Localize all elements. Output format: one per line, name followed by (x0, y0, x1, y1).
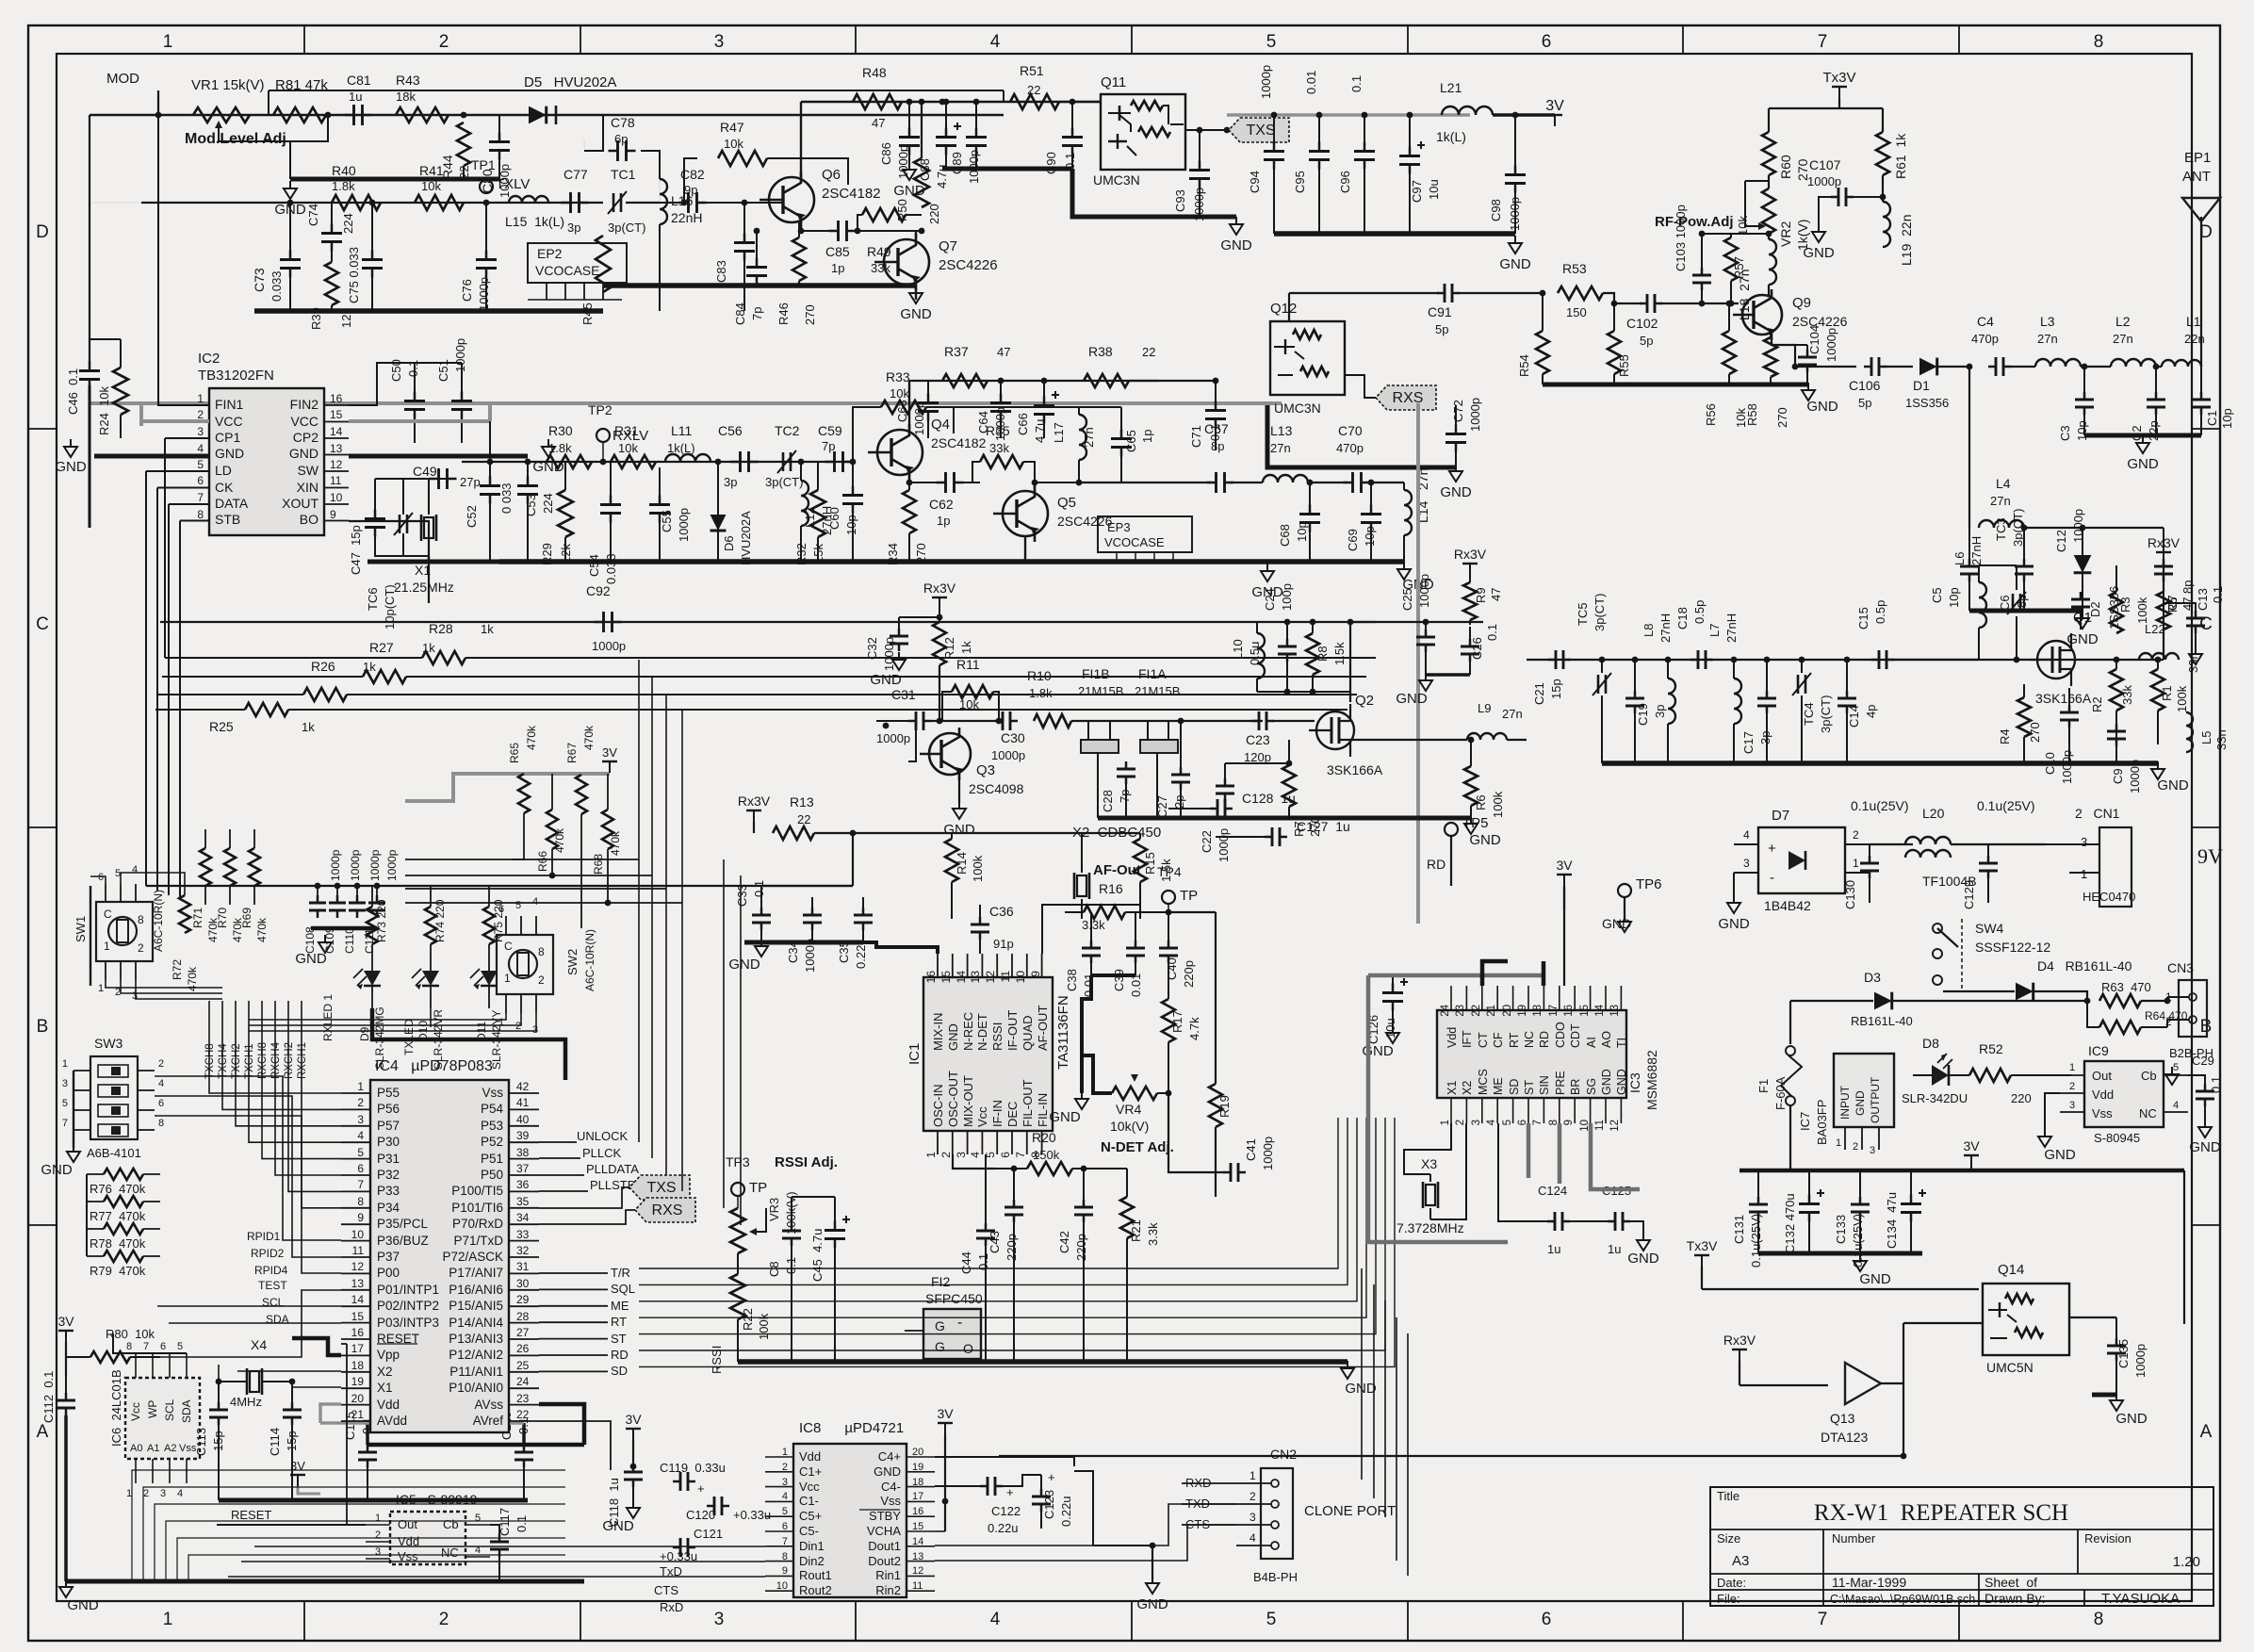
test point TP6 GND (1618, 884, 1631, 897)
svg-text:RPID2: RPID2 (251, 1247, 285, 1260)
svg-text:0.1: 0.1 (752, 880, 766, 897)
svg-text:C30: C30 (1001, 730, 1025, 745)
gnd below C107 (1818, 224, 1820, 232)
svg-text:R4: R4 (1998, 728, 2012, 744)
svg-text:C74: C74 (306, 204, 320, 226)
svg-text:Vdd: Vdd (799, 1449, 821, 1464)
IC8 pin 7 Din1 (765, 1546, 793, 1547)
inductor L21 1k(L) (1442, 106, 1493, 115)
IC3 pin 19 NC (1527, 986, 1529, 1010)
power 3V above rail (1970, 1155, 1972, 1167)
switch SW4 SSSF122-12 (1933, 924, 1942, 933)
thick gnd under C108-C111 (311, 926, 377, 931)
svg-text:3p(CT): 3p(CT) (1592, 594, 1607, 631)
svg-text:C4: C4 (1977, 314, 1994, 329)
svg-text:SCL: SCL (163, 1398, 176, 1421)
svg-text:1000p: 1000p (1824, 328, 1838, 362)
svg-text:R43: R43 (396, 73, 420, 88)
FI2 pins (934, 1359, 936, 1362)
IC1 pin 8 FIL-IN (1041, 1131, 1043, 1154)
capacitor C65 1p (1111, 437, 1132, 440)
svg-text:X1: X1 (415, 563, 431, 578)
svg-text:R69: R69 (240, 908, 253, 928)
svg-text:C112 0.1: C112 0.1 (41, 1371, 56, 1423)
svg-text:11: 11 (330, 474, 342, 487)
svg-text:AVdd: AVdd (377, 1414, 407, 1428)
svg-text:C95: C95 (1293, 171, 1307, 193)
resistor R24 10k (113, 368, 128, 415)
transistor Q3 2SC4098 (929, 733, 971, 775)
IC2 pin 14 CP2 (324, 437, 349, 439)
gnd SW3 (73, 1071, 74, 1148)
svg-text:R77 470k: R77 470k (90, 1209, 146, 1223)
svg-text:FIL-IN: FIL-IN (1036, 1093, 1050, 1127)
thick GND bar TX amp (603, 283, 916, 288)
svg-text:27nH: 27nH (1969, 536, 1984, 565)
svg-text:3p: 3p (567, 221, 580, 235)
svg-text:P00: P00 (377, 1266, 400, 1280)
svg-text:R28: R28 (429, 621, 453, 636)
trimmer TC5 3p(CT) (1597, 675, 1600, 694)
svg-text:R31: R31 (614, 423, 639, 438)
capacitor C32 1000p (890, 635, 908, 638)
svg-text:R51: R51 (1020, 63, 1044, 78)
svg-text:3p(CT): 3p(CT) (2011, 509, 2025, 547)
svg-text:22p: 22p (2147, 420, 2161, 441)
svg-text:100k: 100k (1491, 791, 1505, 818)
capacitor C42 220p (1074, 1206, 1093, 1209)
svg-text:6: 6 (158, 1098, 164, 1109)
svg-text:SFPC450: SFPC450 (925, 1291, 983, 1306)
svg-text:Size: Size (1717, 1531, 1740, 1546)
svg-text:C134 47u: C134 47u (1885, 1192, 1899, 1249)
diode D6 HVU202A varactor (710, 515, 727, 531)
svg-text:R26: R26 (311, 659, 335, 674)
resistor R63 470 (2099, 994, 2141, 1007)
svg-text:TC3: TC3 (1994, 517, 2008, 541)
svg-text:Vss: Vss (2092, 1106, 2113, 1120)
svg-text:16: 16 (924, 971, 938, 984)
svg-text:TP4: TP4 (1157, 864, 1182, 879)
svg-text:4: 4 (1743, 828, 1750, 842)
svg-text:CN2: CN2 (1270, 1447, 1297, 1462)
svg-text:RT: RT (611, 1315, 627, 1329)
IC4 pin 16 RESET (341, 1338, 370, 1340)
wire R13 to R14 and C33 (852, 833, 854, 886)
svg-text:A1: A1 (147, 1443, 159, 1454)
dual gate FET Q2 3SK166A (1316, 712, 1354, 749)
svg-text:7: 7 (143, 1341, 149, 1352)
svg-text:GND: GND (289, 446, 318, 461)
svg-text:GND: GND (1220, 237, 1252, 254)
svg-text:1000p: 1000p (368, 849, 382, 881)
resistor R17 4.7k (1162, 999, 1175, 1042)
svg-text:47: 47 (997, 345, 1010, 359)
thick analog GND bar under VR1 block (290, 177, 499, 182)
IC1 pin 11 IF-OUT (1011, 954, 1013, 977)
svg-text:CN3: CN3 (2167, 960, 2194, 975)
svg-text:C135: C135 (2116, 1339, 2131, 1368)
svg-text:R68: R68 (592, 854, 605, 875)
IC4 pin 32 P72/ASCK (509, 1256, 539, 1258)
IC8 pin 15 VCHA (906, 1530, 935, 1532)
svg-text:C47 15p: C47 15p (349, 525, 363, 575)
capacitor C120 0.33u (713, 1497, 716, 1515)
capacitor C80 1000p (489, 140, 510, 143)
thick gnd bar FI1 row (1098, 816, 1471, 821)
svg-text:R20: R20 (1032, 1130, 1056, 1145)
svg-text:1000p: 1000p (477, 277, 491, 311)
resistor R49 33k (862, 208, 906, 221)
inductor L15 1k(L) (509, 196, 548, 203)
svg-text:20: 20 (1502, 1005, 1513, 1017)
svg-text:PLLDATA: PLLDATA (586, 1162, 639, 1176)
svg-text:Mod.Level Adj: Mod.Level Adj (185, 131, 286, 147)
svg-text:26: 26 (516, 1342, 530, 1355)
svg-text:C: C (504, 940, 513, 953)
long horizontal wires to vertical bundle (405, 859, 639, 860)
svg-text:C38: C38 (1065, 969, 1079, 991)
svg-text:P100/TI5: P100/TI5 (451, 1184, 503, 1198)
svg-text:2: 2 (2069, 1081, 2075, 1092)
IC3 pin 24 Vdd (1450, 986, 1452, 1010)
svg-text:3.3k: 3.3k (1146, 1222, 1160, 1246)
wire R48 down to R50 (921, 102, 923, 158)
svg-text:Q5: Q5 (1057, 495, 1076, 511)
svg-text:T.YASUOKA: T.YASUOKA (2101, 1591, 2180, 1607)
svg-text:3V: 3V (290, 1459, 305, 1473)
svg-text:2: 2 (197, 408, 204, 421)
svg-text:1000p: 1000p (1417, 574, 1431, 608)
svg-text:7.3728MHz: 7.3728MHz (1396, 1220, 1464, 1235)
svg-text:TXS: TXS (646, 1180, 676, 1196)
svg-text:P12/ANI2: P12/ANI2 (449, 1348, 503, 1362)
svg-text:P03/INTP3: P03/INTP3 (377, 1316, 439, 1330)
svg-text:DTA123: DTA123 (1821, 1430, 1869, 1445)
wire L21 to 3V (1493, 113, 1555, 116)
svg-text:L3: L3 (2040, 314, 2055, 329)
capacitor C97 10u electrolytic (1399, 155, 1420, 157)
svg-text:3V: 3V (937, 1406, 954, 1421)
resistor R32 15k (810, 490, 825, 537)
svg-text:C41: C41 (1244, 1138, 1258, 1161)
svg-text:X1: X1 (1445, 1081, 1459, 1095)
svg-text:C84: C84 (733, 303, 747, 325)
svg-text:1000p: 1000p (1468, 398, 1482, 432)
svg-text:C44: C44 (959, 1251, 973, 1274)
svg-text:C5-: C5- (799, 1524, 819, 1538)
RX input line from C7 (2163, 641, 2164, 660)
svg-text:0.5p: 0.5p (1692, 600, 1707, 624)
capacitor C93 1000p (1189, 169, 1210, 172)
svg-text:2: 2 (782, 1462, 788, 1473)
svg-text:35: 35 (516, 1195, 530, 1208)
IC3 pin 7 SIN (1543, 1098, 1544, 1123)
wires from IC1 bottom pins down (953, 1154, 995, 1169)
power Rx3V R13 (753, 810, 755, 822)
IC4 pin 5 P31 (341, 1158, 370, 1160)
svg-text:Out: Out (2092, 1069, 2112, 1083)
long T/R..SD wires from IC4 to right (539, 1272, 608, 1274)
svg-text:HVU202A: HVU202A (739, 511, 753, 565)
resistor R69 470k (249, 848, 260, 886)
svg-text:P54: P54 (481, 1102, 504, 1116)
capacitor C27 2p (1171, 774, 1190, 777)
svg-text:41: 41 (516, 1096, 530, 1109)
svg-text:2: 2 (1853, 1141, 1858, 1153)
svg-text:7: 7 (1532, 1120, 1543, 1125)
svg-text:P72/ASCK: P72/ASCK (442, 1250, 503, 1264)
IC1 pin 15 GND (952, 954, 954, 977)
gnd under C32 (898, 652, 900, 660)
svg-text:P55: P55 (377, 1086, 400, 1100)
svg-text:L19 22n: L19 22n (1899, 215, 1914, 267)
resistor R57 10k (1724, 237, 1738, 281)
transistor array Q11 UMC3N (1101, 94, 1185, 170)
svg-text:1000p: 1000p (2060, 750, 2074, 784)
svg-text:19: 19 (1517, 1005, 1528, 1017)
svg-text:0.5u: 0.5u (1248, 642, 1262, 665)
svg-text:C106: C106 (1849, 378, 1881, 393)
svg-text:0.22: 0.22 (854, 945, 868, 969)
Q3 emitter down gnd (958, 778, 960, 803)
svg-text:29: 29 (516, 1293, 530, 1306)
Q7 emitter to gnd (915, 286, 917, 300)
svg-text:D9: D9 (358, 1026, 371, 1041)
svg-text:1: 1 (504, 972, 511, 985)
resistor R19 (1209, 1084, 1222, 1127)
IC8 pin 14 Dout1 (906, 1546, 935, 1547)
svg-text:4: 4 (132, 864, 138, 875)
wire RD TP5 into IC3 (1451, 886, 1545, 942)
svg-text:1000p: 1000p (329, 849, 342, 881)
svg-text:3: 3 (1471, 1120, 1482, 1125)
svg-text:R32: R32 (794, 543, 808, 565)
svg-text:ME: ME (1492, 1077, 1505, 1095)
svg-text:C31: C31 (891, 687, 916, 702)
svg-text:8p: 8p (2180, 581, 2195, 594)
resistor R52 220 (1969, 1069, 2011, 1082)
capacitor C128 1u (1217, 799, 1219, 818)
svg-text:4: 4 (197, 442, 204, 455)
capacitor C134 47u (1901, 1202, 1921, 1205)
svg-text:19: 19 (912, 1462, 923, 1473)
svg-text:R58: R58 (1745, 403, 1759, 426)
svg-text:27n: 27n (1502, 707, 1523, 721)
svg-text:Q2: Q2 (1355, 693, 1374, 709)
svg-text:3: 3 (955, 1152, 968, 1158)
svg-text:FIN1: FIN1 (215, 397, 244, 412)
transistor Q6 2SC4182 (769, 177, 814, 222)
svg-text:0.1u(25V): 0.1u(25V) (1749, 1214, 1763, 1268)
svg-text:R66: R66 (536, 851, 549, 872)
resistor R70 470k (224, 848, 236, 886)
svg-text:3: 3 (62, 1078, 68, 1089)
svg-text:Q6: Q6 (822, 167, 841, 183)
D7 pin stubs (1734, 843, 1758, 845)
svg-text:C26: C26 (1470, 637, 1484, 660)
svg-text:R79 470k: R79 470k (90, 1264, 146, 1278)
resistor R50 220 (914, 158, 929, 207)
Q5 emitter gnd (1024, 536, 1026, 562)
svg-text:R75 220: R75 220 (492, 899, 505, 942)
svg-text:1p: 1p (831, 261, 844, 275)
svg-text:GND: GND (1806, 399, 1838, 415)
svg-text:RXLED 1: RXLED 1 (321, 994, 335, 1041)
svg-text:R38: R38 (1088, 344, 1113, 359)
capacitor C46 0.1 (79, 369, 100, 372)
svg-text:6: 6 (782, 1521, 788, 1532)
svg-text:3: 3 (160, 1488, 166, 1499)
svg-text:GND: GND (295, 951, 327, 967)
IC4 pin 15 P03/INTP3 (341, 1322, 370, 1324)
svg-text:GND: GND (2127, 456, 2159, 472)
svg-text:3V: 3V (1545, 98, 1564, 114)
svg-text:1000p: 1000p (991, 748, 1025, 762)
svg-text:TI: TI (1615, 1038, 1628, 1048)
gray 3V bus to R65-R68 (405, 774, 610, 801)
resistor R26 1k (303, 688, 347, 701)
IC8 pin 18 C4- (906, 1486, 935, 1488)
capacitor C67 8p (1215, 472, 1217, 493)
svg-text:0.033: 0.033 (269, 270, 284, 302)
test point TP2 RXLV (596, 429, 610, 442)
svg-text:4: 4 (177, 1488, 183, 1499)
svg-text:3p: 3p (1653, 705, 1667, 718)
svg-text:C27: C27 (1155, 795, 1169, 818)
resistor R43 18k (396, 107, 449, 123)
svg-text:10p: 10p (2075, 420, 2089, 441)
resistor R71 470k (200, 848, 211, 886)
svg-text:470p: 470p (1336, 441, 1364, 455)
IC4 pin 12 P00 (341, 1272, 370, 1274)
svg-text:T/R: T/R (611, 1266, 630, 1280)
svg-text:C120: C120 (686, 1508, 715, 1522)
svg-text:MSM6882: MSM6882 (1644, 1050, 1659, 1110)
Tx3V label top right (1838, 87, 1840, 98)
svg-text:7p: 7p (822, 439, 835, 453)
IC2 pin 2 VCC (185, 421, 209, 423)
svg-text:RxD: RxD (660, 1600, 683, 1614)
IC3 pin 13 TI (1620, 986, 1622, 1010)
svg-text:220p: 220p (1004, 1234, 1019, 1261)
long RD SD wires right of IC4 to IC3 and beyond (1337, 1117, 1339, 1119)
svg-text:SCL: SCL (262, 1296, 285, 1309)
svg-text:RSSI Adj.: RSSI Adj. (775, 1154, 838, 1170)
resistor R37 47 (942, 374, 988, 387)
IC4 pin 40 P53 (509, 1125, 539, 1127)
svg-text:C103 1000p: C103 1000p (1674, 204, 1688, 271)
svg-text:C: C (104, 908, 112, 921)
capacitor C33 0.1 (752, 914, 771, 917)
svg-text:ST: ST (611, 1332, 627, 1346)
wire to Q12 (1129, 380, 1216, 382)
transistor Q13 DTA123 digital (1845, 1363, 1881, 1404)
resistor R10 1.8k (1034, 714, 1071, 728)
power 3V IC8 left (632, 1429, 634, 1440)
svg-text:21: 21 (1486, 1005, 1497, 1017)
svg-text:TB31202FN: TB31202FN (198, 368, 274, 384)
IC IC4 uPD78P083 (370, 1080, 509, 1432)
transformer L20 TF1004B (1905, 837, 1951, 844)
IC4 pin 25 P11/ANI1 (509, 1371, 539, 1373)
resistor R55 (1608, 331, 1621, 374)
gnd CN3 (2192, 1037, 2194, 1040)
svg-text:C1: C1 (2205, 410, 2219, 426)
svg-text:C40: C40 (1165, 957, 1179, 980)
overline STBY (859, 1509, 900, 1511)
dual gate FET Q1 3SK166A (2037, 641, 2075, 679)
svg-text:R72: R72 (171, 959, 184, 980)
svg-text:14: 14 (330, 425, 343, 438)
thick gnd C135 (2092, 1393, 2116, 1398)
svg-text:8: 8 (126, 1341, 132, 1352)
svg-text:P02/INTP2: P02/INTP2 (377, 1299, 439, 1313)
box EP3 VCOCASE (1098, 516, 1192, 552)
svg-text:GND: GND (67, 1597, 99, 1613)
IC4 pin 17 Vpp (341, 1354, 370, 1356)
svg-text:UMC5N: UMC5N (1986, 1360, 2033, 1375)
IC1 pin 16 MIX-IN (937, 954, 939, 977)
svg-text:1000p: 1000p (2128, 760, 2142, 793)
svg-text:1: 1 (98, 983, 104, 994)
svg-text:C75 0.033: C75 0.033 (347, 247, 361, 303)
svg-text:C4-: C4- (881, 1480, 901, 1494)
svg-text:31: 31 (516, 1260, 530, 1273)
svg-text:C92: C92 (586, 583, 611, 598)
svg-text:20: 20 (351, 1392, 365, 1405)
inductor L6 27nH tank (1979, 582, 1986, 628)
svg-text:Drawn By:: Drawn By: (1984, 1591, 2046, 1606)
svg-text:C83: C83 (714, 260, 728, 283)
svg-text:120p: 120p (1244, 750, 1271, 764)
svg-text:1000p: 1000p (912, 401, 926, 435)
inductor L11 1k(L) (665, 454, 710, 462)
svg-text:R52: R52 (1979, 1041, 2003, 1056)
capacitor C90 0.1 (1062, 136, 1083, 139)
LED D10 SLR-342VR (422, 971, 439, 986)
capacitor C88 4.7u electrolytic (936, 136, 956, 139)
test point TP5 RD (1445, 823, 1458, 836)
svg-text:9: 9 (1029, 971, 1042, 977)
inductor L16 22nH (660, 179, 667, 224)
svg-text:18k: 18k (396, 90, 416, 104)
svg-text:Vcc: Vcc (975, 1106, 989, 1127)
svg-text:IC6 24LC01B: IC6 24LC01B (109, 1369, 123, 1447)
svg-text:R48: R48 (862, 65, 887, 80)
thick bus under X4 (219, 1498, 528, 1503)
svg-text:19: 19 (351, 1375, 365, 1388)
resistor R81 47k (273, 107, 326, 123)
svg-text:0.1: 0.1 (1349, 75, 1364, 92)
svg-text:P36/BUZ: P36/BUZ (377, 1234, 429, 1248)
svg-text:220p: 220p (1074, 1234, 1088, 1261)
svg-text:D7: D7 (1772, 808, 1789, 824)
svg-text:0.22u: 0.22u (988, 1521, 1019, 1535)
svg-text:C98: C98 (1489, 199, 1503, 221)
svg-text:1000p: 1000p (453, 338, 467, 372)
svg-text:SW4: SW4 (1975, 921, 2004, 936)
svg-text:P70/RxD: P70/RxD (452, 1217, 503, 1231)
thick GND wire IC2 pin4 (94, 454, 209, 459)
IC8 pin 17 Vss (906, 1500, 935, 1502)
thick dark wires IC3 bottom pins (1513, 1123, 1640, 1169)
long line to C91 (1289, 292, 1439, 294)
wires IC2 left pins to left bus (158, 90, 209, 405)
svg-text:470k: 470k (553, 827, 566, 853)
transistor Q5 2SC4226 (1003, 491, 1048, 536)
svg-text:0.1: 0.1 (514, 1515, 529, 1532)
